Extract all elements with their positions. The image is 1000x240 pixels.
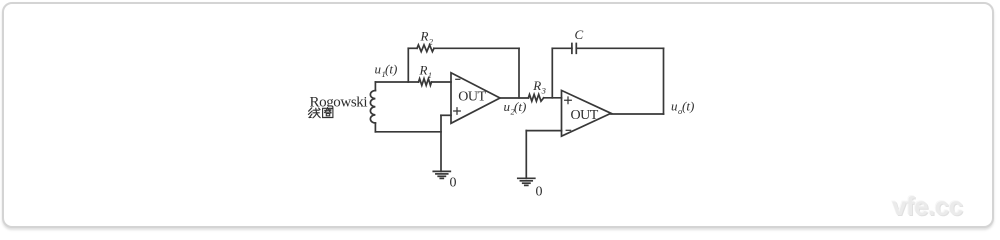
svg-text:u: u xyxy=(671,99,678,114)
svg-text:0: 0 xyxy=(450,176,457,191)
svg-text:u: u xyxy=(375,62,382,77)
svg-text:(t): (t) xyxy=(682,99,694,114)
svg-text:(t): (t) xyxy=(514,99,526,114)
svg-text:0: 0 xyxy=(536,185,543,200)
svg-text:1: 1 xyxy=(428,70,432,80)
svg-text:R: R xyxy=(420,29,429,44)
svg-text:R: R xyxy=(532,78,541,93)
svg-text:OUT: OUT xyxy=(571,108,599,123)
svg-text:3: 3 xyxy=(541,86,546,96)
svg-text:C: C xyxy=(575,27,584,42)
svg-text:R: R xyxy=(419,62,428,77)
svg-text:OUT: OUT xyxy=(458,90,486,105)
svg-text:2: 2 xyxy=(429,36,434,46)
svg-text:(t): (t) xyxy=(385,62,397,77)
svg-text:u: u xyxy=(504,99,511,114)
